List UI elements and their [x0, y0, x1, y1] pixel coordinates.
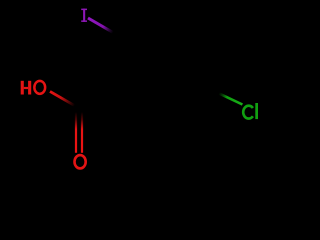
double bond C=O line 1: [75, 112, 77, 153]
benzene ring (carbon bonds, black on black): [113, 22, 219, 115]
atom label I: [81, 9, 87, 22]
bond C2-I: [88, 18, 113, 33]
atom label O (carbonyl): [75, 155, 86, 168]
double bond C=O line 2: [81, 112, 83, 153]
atom label HO (hydroxyl): [21, 81, 32, 95]
bond C5-Cl: [219, 93, 242, 104]
atom label Cl: [243, 106, 253, 119]
bond O-C (hydroxyl to carboxyl carbon): [50, 91, 75, 105]
